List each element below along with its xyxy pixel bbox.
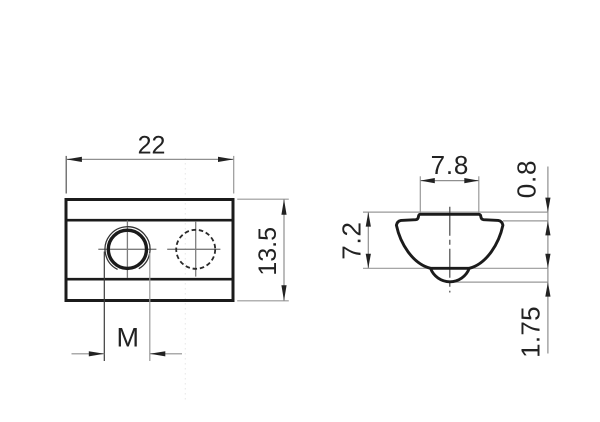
svg-text:7.2: 7.2 <box>337 221 367 260</box>
svg-text:22: 22 <box>138 132 166 160</box>
svg-text:M: M <box>116 323 139 353</box>
svg-text:0.8: 0.8 <box>512 160 542 199</box>
svg-text:7.8: 7.8 <box>431 150 470 180</box>
svg-text:1.75: 1.75 <box>516 306 546 358</box>
svg-text:13.5: 13.5 <box>254 227 282 276</box>
